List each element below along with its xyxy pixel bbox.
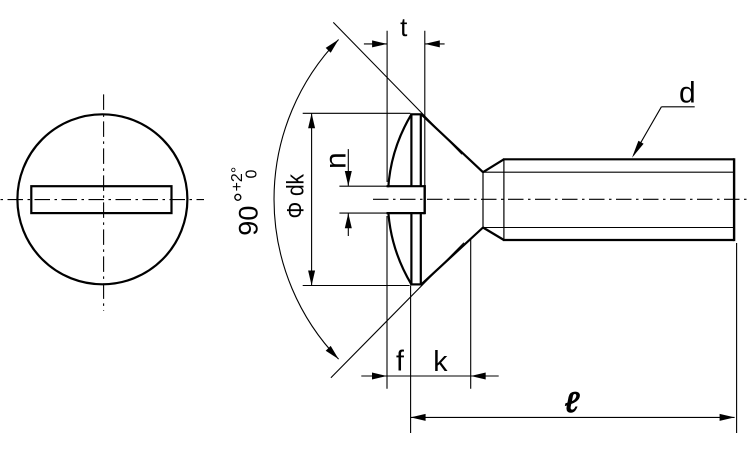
- svg-text:t: t: [400, 12, 408, 42]
- svg-text:°: °: [229, 192, 259, 202]
- svg-text:Φ dk: Φ dk: [282, 173, 309, 218]
- svg-text:90: 90: [234, 206, 264, 236]
- svg-text:ℓ: ℓ: [564, 387, 580, 420]
- svg-text:k: k: [433, 346, 448, 378]
- svg-text:f: f: [396, 346, 404, 378]
- svg-text:0: 0: [244, 170, 261, 179]
- svg-text:n: n: [319, 152, 352, 169]
- svg-text:d: d: [679, 76, 696, 109]
